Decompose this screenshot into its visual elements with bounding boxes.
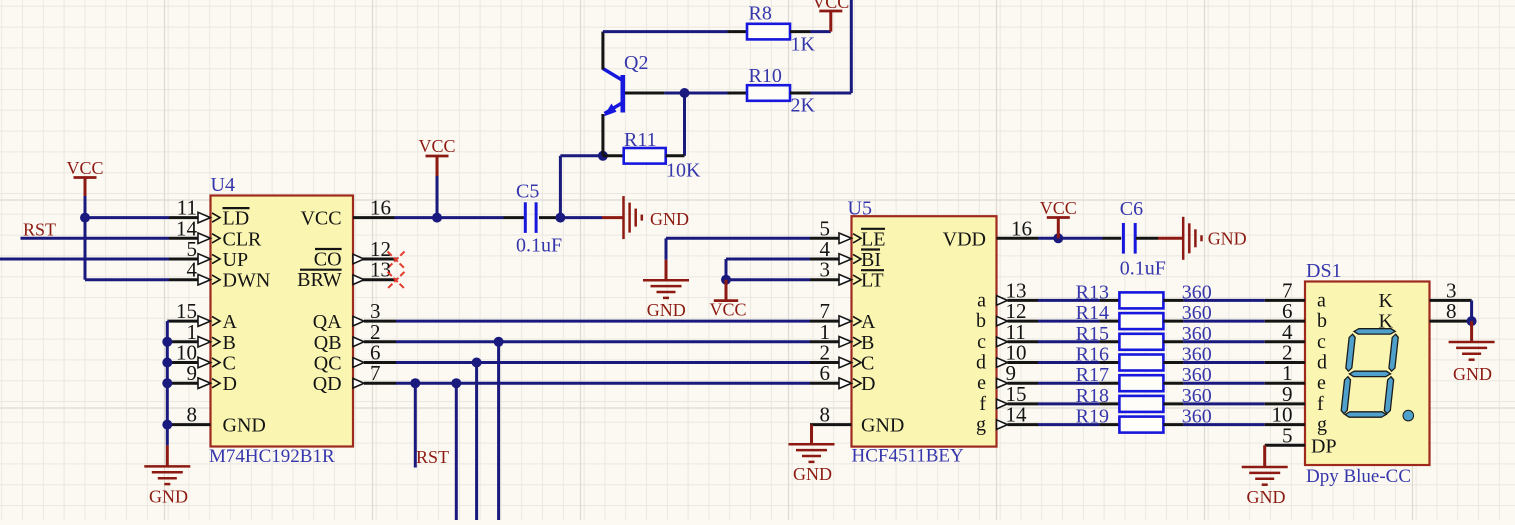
svg-text:d: d (976, 352, 986, 374)
wire VCC to LD pin (85, 216, 169, 219)
svg-text:RST: RST (416, 447, 449, 467)
svg-text:R14: R14 (1076, 302, 1109, 324)
svg-text:1K: 1K (791, 34, 816, 56)
resistor R11 left lead (603, 154, 624, 157)
no-ERC cross on pin 12 (388, 252, 405, 269)
svg-text:10K: 10K (666, 160, 701, 182)
svg-text:R13: R13 (1076, 281, 1109, 303)
ground port GND right of C6 (1158, 237, 1183, 240)
U5 ground earth symbol (789, 443, 835, 446)
wire U5 output to R13 (1038, 299, 1099, 302)
capacitor C5 right lead (539, 216, 560, 219)
wire QB branch down off-sheet (497, 342, 500, 520)
wire U5 output to R17 (1038, 382, 1099, 385)
U5 pin 8 GND (810, 423, 852, 426)
resistor R15 right lead (1163, 340, 1183, 343)
U4 pin 7 QD (364, 382, 396, 385)
wire QD to U5 D (396, 382, 810, 385)
resistor R14 left lead (1099, 320, 1119, 323)
svg-text:DP: DP (1311, 435, 1337, 457)
resistor R8 left lead (728, 30, 748, 33)
wire VDD to C6 (1038, 237, 1103, 240)
DS1 pin 10 segment g (1265, 423, 1305, 426)
U4 pin 4 DWN (169, 278, 198, 281)
wire Q2 emitter junction to C5 junction (560, 154, 603, 157)
U5 pin 12 b (1008, 320, 1039, 323)
svg-text:VCC: VCC (1040, 198, 1077, 218)
wire R15 to DS1 (1183, 340, 1264, 343)
junction on A-D vertical (162, 337, 172, 347)
wire QB to U5 B (396, 340, 810, 343)
svg-text:DWN: DWN (223, 270, 271, 292)
resistor R11 body (624, 148, 666, 164)
svg-text:C: C (861, 353, 874, 375)
resistor R17 right lead (1163, 382, 1183, 385)
junction base/R11 feedback (680, 88, 690, 98)
U5 ground: stem at pin 8 (810, 425, 813, 445)
U5 pin 3 LT (810, 278, 839, 281)
wire QA to U5 A (396, 320, 810, 323)
U4 pin 6 QC (364, 361, 396, 364)
resistor R14 right lead (1163, 320, 1183, 323)
svg-text:R16: R16 (1076, 344, 1109, 366)
svg-text:VDD: VDD (943, 228, 986, 250)
resistor R10 right lead (790, 92, 811, 95)
svg-text:C5: C5 (516, 181, 539, 203)
wire QC to U5 C (396, 361, 810, 364)
svg-text:16: 16 (370, 196, 391, 220)
svg-text:Dpy Blue-CC: Dpy Blue-CC (1306, 466, 1411, 487)
resistor R16 body (1119, 355, 1163, 371)
svg-text:e: e (977, 372, 986, 394)
wire joining K pins (1470, 300, 1473, 321)
svg-text:VCC: VCC (418, 136, 455, 156)
svg-text:8: 8 (187, 403, 198, 427)
wire U5 output to R14 (1038, 320, 1099, 323)
svg-text:A: A (223, 311, 238, 333)
svg-text:R15: R15 (1076, 323, 1109, 345)
svg-text:R17: R17 (1076, 364, 1109, 386)
DS1 decimal point (1403, 410, 1414, 421)
U5 pin 16 VDD (997, 237, 1039, 240)
svg-text:QB: QB (314, 332, 342, 354)
svg-text:C6: C6 (1120, 198, 1143, 220)
svg-text:5: 5 (1282, 423, 1293, 447)
U4 pin 3 QA (364, 320, 396, 323)
svg-text:c: c (977, 331, 986, 353)
svg-text:BRW: BRW (297, 269, 342, 291)
svg-text:LD: LD (223, 208, 250, 230)
resistor R19 body (1119, 417, 1163, 433)
display DS1 Dpy Blue-CC body (1305, 282, 1430, 466)
U5 pin 1 B (810, 340, 839, 343)
resistor R10 left lead (728, 92, 748, 95)
svg-text:CO: CO (314, 249, 342, 271)
resistor R14 body (1119, 313, 1163, 329)
junction Q2 emitter / R11 (598, 151, 608, 161)
junction right of C5 (555, 213, 565, 223)
svg-text:4: 4 (187, 258, 198, 282)
DS1 pin 3 K (common cathode) (1430, 299, 1472, 302)
svg-text:LT: LT (861, 270, 884, 292)
U5 pin 7 A (810, 320, 839, 323)
DS1 pin 7 segment a (1265, 299, 1305, 302)
wire U5 output to R16 (1038, 361, 1099, 364)
svg-text:R18: R18 (1076, 385, 1109, 407)
resistor R18 body (1119, 396, 1163, 412)
transistor Q2 symbol (603, 69, 623, 114)
resistor R15 body (1119, 334, 1163, 350)
svg-text:C: C (223, 353, 236, 375)
svg-text:A: A (861, 311, 876, 333)
U4 ground earth symbol (144, 465, 190, 468)
U4 pin 12 CO (353, 258, 397, 261)
capacitor C6 right lead (1136, 237, 1158, 240)
svg-text:8: 8 (1446, 299, 1457, 323)
svg-text:GND: GND (1208, 229, 1247, 249)
DS1 pin 5 DP (1265, 444, 1305, 447)
svg-text:VCC: VCC (300, 208, 341, 230)
svg-text:9: 9 (187, 361, 198, 385)
resistor R18 left lead (1099, 402, 1119, 405)
U5 pin 9 e (1008, 382, 1039, 385)
DS1 pin 2 segment d (1265, 361, 1305, 364)
U5 pin 10 d (1008, 361, 1039, 364)
svg-text:g: g (1317, 414, 1327, 436)
svg-text:QC: QC (314, 353, 342, 375)
svg-text:GND: GND (149, 486, 188, 506)
svg-text:f: f (979, 393, 986, 415)
wire junction down to R11 (683, 93, 686, 156)
DS1 pin 4 segment c (1265, 340, 1305, 343)
svg-text:13: 13 (370, 258, 391, 282)
wire LE pin to ground (666, 237, 810, 240)
svg-text:R11: R11 (624, 129, 657, 151)
wire VCC down to DWN row (84, 218, 87, 280)
junction on A-D vertical (162, 358, 172, 368)
svg-text:a: a (977, 289, 986, 311)
resistor R10 body (747, 85, 790, 101)
resistor R11 right lead (666, 154, 685, 157)
wire U5 output to R18 (1038, 402, 1099, 405)
wire QD branch down off-sheet (455, 383, 458, 520)
svg-text:VCC: VCC (709, 300, 746, 320)
resistor R17 left lead (1099, 382, 1119, 385)
DS1 pin 1 segment e (1265, 382, 1305, 385)
wire to UP pin from sheet edge (0, 258, 169, 261)
resistor R19 left lead (1099, 423, 1119, 426)
svg-text:QD: QD (313, 373, 342, 395)
U4 pin 13 BRW (353, 278, 397, 281)
U4 pin 1 B (169, 340, 198, 343)
U4 pin 8 GND (169, 423, 211, 426)
U5 pin 4 BI (810, 258, 839, 261)
junction on QB wire (494, 337, 504, 347)
svg-text:UP: UP (223, 249, 249, 271)
wire R8 to VCC port (811, 30, 831, 33)
resistor R8 body (747, 24, 790, 40)
svg-text:LE: LE (861, 228, 885, 250)
svg-text:GND: GND (861, 415, 904, 437)
wire R14 to DS1 (1183, 320, 1264, 323)
power port VCC below LT (inverted) (725, 280, 728, 301)
svg-text:GND: GND (647, 300, 686, 320)
resistor R13 body (1119, 292, 1163, 308)
junction at VCC tap on VDD net (1053, 233, 1063, 243)
junction on QD wire at RST stub (410, 378, 420, 388)
wire R16 to DS1 (1183, 361, 1264, 364)
svg-text:0.1uF: 0.1uF (1120, 258, 1166, 280)
svg-text:14: 14 (1006, 403, 1028, 427)
U4 pin 5 UP (169, 258, 198, 261)
U4 pin 10 C (169, 361, 198, 364)
svg-text:DS1: DS1 (1306, 260, 1342, 282)
wire U4 VCC pin to C5 (395, 216, 504, 219)
U5 pin 2 C (810, 361, 839, 364)
resistor R17 body (1119, 375, 1163, 391)
svg-text:R10: R10 (749, 65, 782, 87)
svg-text:R8: R8 (749, 3, 772, 25)
U5 pin 14 g (1008, 423, 1039, 426)
ground port at DS1 K (1470, 321, 1473, 342)
capacitor C5 left lead (504, 216, 525, 219)
resistor R19 right lead (1163, 423, 1183, 426)
no-ERC cross on pin 13 (388, 272, 405, 289)
svg-text:7: 7 (370, 361, 381, 385)
wire base to R10 (664, 92, 727, 95)
junction at LD row (80, 213, 90, 223)
svg-text:GND: GND (650, 209, 689, 229)
U5 pin 6 D (810, 382, 839, 385)
svg-text:VCC: VCC (66, 158, 103, 178)
svg-text:8: 8 (820, 403, 831, 427)
resistor R18 right lead (1163, 402, 1183, 405)
DS1 seven-segment digit glyph (1340, 329, 1399, 418)
junction on QD wire (451, 378, 461, 388)
wire vertical joining A-D inputs (166, 321, 169, 425)
svg-text:CLR: CLR (223, 228, 263, 250)
svg-text:6: 6 (820, 361, 831, 385)
svg-text:QA: QA (313, 311, 342, 333)
svg-text:0.1uF: 0.1uF (516, 235, 562, 257)
svg-text:GND: GND (223, 415, 266, 437)
U5 pin 11 c (1008, 340, 1039, 343)
svg-text:B: B (223, 332, 236, 354)
U4 pin 14 CLR (169, 237, 198, 240)
transistor Q2 base pin (625, 92, 664, 95)
svg-text:GND: GND (793, 464, 832, 484)
svg-text:2K: 2K (791, 95, 816, 117)
wire RST stub (414, 383, 417, 467)
wire R13 to DS1 (1183, 299, 1264, 302)
svg-text:U5: U5 (848, 198, 872, 220)
junction at K pins (1467, 316, 1477, 326)
resistor R8 right lead (790, 30, 811, 33)
wire C5 to GND port (560, 216, 602, 219)
svg-text:D: D (223, 373, 237, 395)
resistor R16 right lead (1163, 361, 1183, 364)
U5 pin 5 LE (810, 237, 839, 240)
ground port at DS1 DP (1263, 445, 1266, 467)
svg-text:RST: RST (23, 220, 56, 240)
U4 ground: stem (166, 425, 169, 446)
svg-text:B: B (861, 332, 874, 354)
svg-text:M74HC192B1R: M74HC192B1R (209, 446, 335, 467)
transistor Q2 collector pin (601, 32, 604, 70)
wire QC branch down off-sheet (475, 363, 478, 521)
capacitor C6 left lead (1103, 237, 1122, 240)
svg-text:d: d (1317, 352, 1327, 374)
junction BI/LT at VCC (721, 275, 731, 285)
svg-text:f: f (1317, 393, 1324, 415)
DS1 pin 6 segment b (1265, 320, 1305, 323)
svg-text:g: g (976, 414, 986, 436)
wire U5 output to R19 (1038, 423, 1099, 426)
U4 pin 9 D (169, 382, 198, 385)
svg-text:D: D (861, 373, 875, 395)
U5 pin 13 a (1008, 299, 1039, 302)
svg-text:GND: GND (1247, 487, 1286, 507)
DS1 pin 9 segment f (1265, 402, 1305, 405)
ground port at U5 LE (665, 260, 668, 280)
svg-text:K: K (1379, 290, 1394, 312)
transistor Q2 emitter pin (601, 114, 604, 156)
capacitor C6 plates (1122, 223, 1125, 254)
svg-text:HCF4511BEY: HCF4511BEY (852, 446, 965, 467)
wire to DWN pin (85, 278, 169, 281)
wire R19 to DS1 (1183, 423, 1264, 426)
resistor R13 left lead (1099, 299, 1119, 302)
svg-text:R19: R19 (1076, 406, 1109, 428)
wire LT pin (726, 278, 810, 281)
svg-text:3: 3 (820, 258, 831, 282)
wire collector to R8 (603, 30, 728, 33)
svg-text:Q2: Q2 (624, 52, 648, 74)
svg-text:GND: GND (1453, 364, 1492, 384)
wire U5 output to R15 (1038, 340, 1099, 343)
wire BI pin (726, 258, 810, 261)
resistor R16 left lead (1099, 361, 1119, 364)
svg-text:a: a (1317, 289, 1326, 311)
svg-text:U4: U4 (211, 174, 235, 196)
U4 pin 15 A (169, 320, 198, 323)
U4 pin 16 VCC (353, 216, 395, 219)
DS1 pin 8 K (common cathode) (1430, 320, 1472, 323)
junction at VCC tap (432, 213, 442, 223)
resistor R13 right lead (1163, 299, 1183, 302)
junction on A-D vertical (162, 378, 172, 388)
U4 pin 11 LD (169, 216, 198, 219)
capacitor C5 plates (524, 202, 527, 233)
IC U5 HCF4511BEY body (852, 216, 997, 446)
svg-text:c: c (1317, 331, 1326, 353)
svg-text:b: b (1317, 310, 1327, 332)
wire R18 to DS1 (1183, 402, 1264, 405)
U4 pin 2 QB (364, 340, 396, 343)
svg-text:e: e (1317, 372, 1326, 394)
junction on QC wire (472, 358, 482, 368)
svg-text:16: 16 (1011, 216, 1032, 240)
wire RST to CLR pin (21, 237, 170, 240)
junction at GND pin row (162, 420, 172, 430)
IC U4 M74HC192B1R body (211, 196, 354, 447)
svg-text:b: b (976, 310, 986, 332)
ground port GND right of C5 (602, 216, 624, 219)
wire to A pin (167, 320, 169, 323)
U5 pin 15 f (1008, 402, 1039, 405)
wire R10 to top rail (811, 92, 852, 95)
svg-text:BI: BI (861, 249, 881, 271)
wire R17 to DS1 (1183, 382, 1264, 385)
resistor R15 left lead (1099, 340, 1119, 343)
